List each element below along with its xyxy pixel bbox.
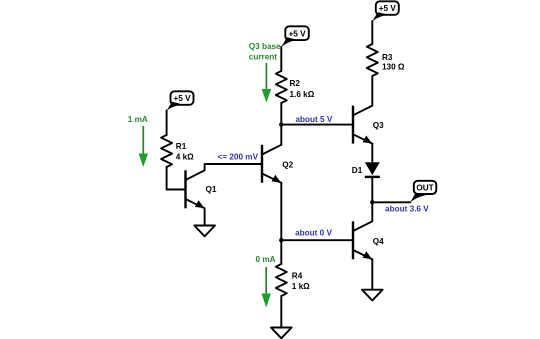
wire R3 to Q3 collector xyxy=(371,76,373,106)
svg-text:D1: D1 xyxy=(352,166,363,175)
svg-text:R4: R4 xyxy=(292,272,303,281)
svg-text:1.6 kΩ: 1.6 kΩ xyxy=(290,90,315,99)
svg-text:1 mA: 1 mA xyxy=(128,115,148,124)
ground (Q1 emitter) xyxy=(194,226,215,237)
transistor Q4 xyxy=(353,221,372,259)
svg-text:about 3.6 V: about 3.6 V xyxy=(385,204,429,213)
resistor R4 xyxy=(276,264,287,296)
wire R4 to ground xyxy=(280,296,282,328)
annotation 1 mA current arrow xyxy=(139,126,148,167)
annotation 0 mA current arrow xyxy=(262,267,271,308)
transistor Q2 xyxy=(262,145,281,183)
svg-text:Q4: Q4 xyxy=(373,237,384,246)
svg-text:OUT: OUT xyxy=(416,184,433,193)
wire node B to Q4 base xyxy=(281,239,352,241)
svg-text:Q2: Q2 xyxy=(282,161,293,170)
OUT flag xyxy=(410,181,436,203)
svg-text:0 mA: 0 mA xyxy=(255,255,275,264)
annotation Q3 base current text xyxy=(249,42,281,62)
resistor R3 xyxy=(367,44,378,76)
wire +5V flag to R1 xyxy=(166,111,168,136)
node C junction (output node) xyxy=(370,200,374,204)
svg-text:4 kΩ: 4 kΩ xyxy=(176,152,194,161)
svg-text:R2: R2 xyxy=(290,79,301,88)
svg-text:current: current xyxy=(249,53,277,62)
wire R2 to node A xyxy=(280,103,282,125)
+5V flag (R3 supply) xyxy=(372,1,399,21)
resistor R1 xyxy=(161,135,172,167)
wire +5V flag to R3 xyxy=(371,21,373,44)
transistor Q3 xyxy=(353,106,372,144)
svg-text:Q3: Q3 xyxy=(373,121,384,130)
node A junction (about 5 V) xyxy=(279,122,283,126)
diode D1 xyxy=(365,162,380,177)
svg-text:Q1: Q1 xyxy=(206,185,217,194)
wire Q4 emitter to ground xyxy=(371,259,373,289)
svg-text:+5 V: +5 V xyxy=(379,4,397,13)
svg-text:about 0 V: about 0 V xyxy=(295,229,332,238)
svg-text:R1: R1 xyxy=(176,142,187,151)
wire Q2 collector to node A xyxy=(280,125,282,145)
resistor R2 xyxy=(276,71,287,103)
svg-text:R3: R3 xyxy=(382,53,393,62)
wire node C to OUT flag xyxy=(372,201,410,203)
ground (Q4 emitter) xyxy=(362,290,383,301)
+5V flag (R1 supply) xyxy=(167,91,194,110)
wire node B to R4 xyxy=(280,240,282,264)
wire node A to Q3 base xyxy=(281,124,352,126)
transistor Q1 xyxy=(186,170,205,208)
+5V flag (R2 supply) xyxy=(281,26,309,47)
node B junction (about 0 V) xyxy=(279,238,283,242)
ground (R4) xyxy=(271,328,292,339)
wire Q3 emitter to D1 xyxy=(371,144,373,162)
svg-text:1 kΩ: 1 kΩ xyxy=(292,282,310,291)
annotation Q3 base current arrow xyxy=(262,63,271,103)
wire R1 to Q1 base xyxy=(167,167,185,190)
svg-text:about 5 V: about 5 V xyxy=(295,115,332,124)
wire D1 to node C xyxy=(371,178,373,202)
svg-text:+5 V: +5 V xyxy=(173,94,191,103)
svg-text:130 Ω: 130 Ω xyxy=(382,63,405,72)
wire Q2 emitter to node B xyxy=(280,183,282,240)
svg-text:<= 200 mV: <= 200 mV xyxy=(218,153,259,162)
wire Q1 collector to Q2 base xyxy=(205,164,261,170)
wire Q1 emitter to ground xyxy=(204,208,206,225)
svg-text:+5 V: +5 V xyxy=(288,29,306,38)
svg-text:Q3 base: Q3 base xyxy=(249,42,281,51)
wire +5V flag to R2 xyxy=(280,47,282,71)
wire node C to Q4 collector xyxy=(371,202,373,221)
